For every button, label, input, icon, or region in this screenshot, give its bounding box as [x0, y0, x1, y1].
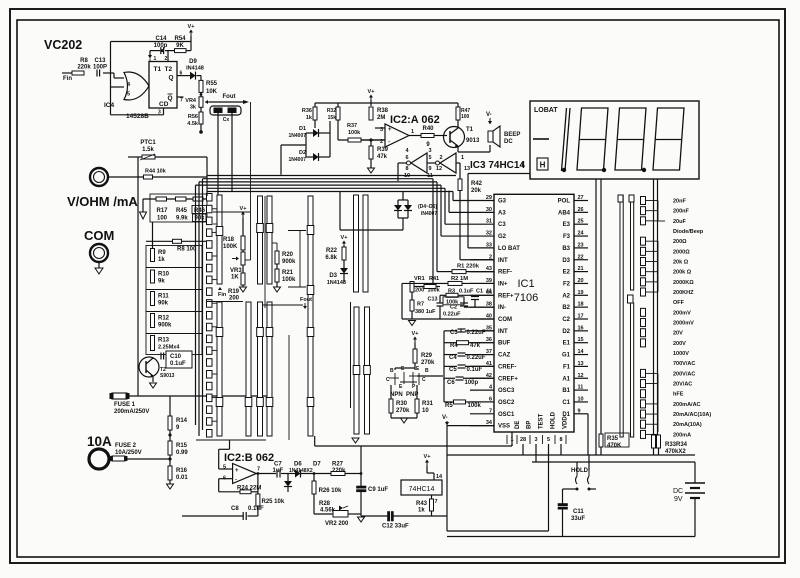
svg-text:D2: D2 — [562, 329, 570, 335]
wire hFE V+ branch — [414, 363, 416, 370]
svg-text:0.1uF: 0.1uF — [170, 361, 186, 367]
svg-text:R45: R45 — [176, 208, 188, 214]
fuse FUSE1 — [112, 393, 127, 399]
svg-text:+: + — [388, 127, 392, 133]
svg-text:R31: R31 — [422, 401, 434, 407]
wire staircase to G2 — [440, 185, 442, 236]
svg-text:R18: R18 — [223, 237, 235, 243]
wire ladder vertical — [152, 222, 154, 249]
wire hFE right link — [417, 375, 443, 377]
svg-text:VDD: VDD — [563, 416, 569, 429]
svg-text:220k: 220k — [77, 65, 91, 71]
resistor R33 R34 470kX2 — [652, 435, 656, 448]
svg-text:74HC14: 74HC14 — [409, 486, 435, 493]
switch bar B1 top — [258, 196, 263, 284]
svg-text:0.22uF: 0.22uF — [443, 312, 461, 318]
ground below R19 — [242, 285, 244, 287]
svg-text:0.22uF: 0.22uF — [467, 355, 486, 361]
svg-text:100k: 100k — [348, 130, 361, 136]
svg-text:Fout: Fout — [223, 94, 236, 100]
switch contact 20V/AC — [641, 380, 646, 388]
speaker BEEP DC — [488, 131, 493, 142]
wire left riser to bus — [206, 157, 208, 196]
svg-text:R22: R22 — [326, 248, 338, 254]
wire inverter chain — [427, 162, 436, 164]
svg-text:FUSE 2: FUSE 2 — [115, 443, 137, 449]
switch contact 2000mV — [641, 319, 646, 327]
svg-text:0.1uF: 0.1uF — [467, 367, 483, 373]
switch bar D2 bottom — [365, 307, 370, 434]
svg-text:1k: 1k — [158, 257, 165, 263]
svg-text:R27: R27 — [332, 462, 344, 468]
svg-text:IN4148: IN4148 — [186, 66, 204, 72]
svg-text:1: 1 — [154, 56, 157, 62]
svg-text:2M: 2M — [377, 115, 385, 121]
wire interbar 265 — [264, 196, 266, 308]
svg-text:2000Ω: 2000Ω — [673, 249, 690, 255]
pot VR2 200 — [333, 511, 348, 518]
svg-text:R28: R28 — [319, 501, 331, 507]
op-amp IC2:A — [385, 124, 409, 147]
svg-text:1N4007: 1N4007 — [288, 157, 306, 163]
wire PTC1 row — [128, 156, 142, 158]
LCD digit 1 — [562, 108, 567, 171]
svg-text:D3: D3 — [562, 258, 570, 264]
svg-text:BP: BP — [527, 421, 533, 429]
svg-text:V-: V- — [442, 415, 448, 421]
svg-text:200k Ω: 200k Ω — [673, 270, 692, 276]
switch contact 20uF — [641, 217, 646, 225]
wire Cx leads down — [217, 112, 219, 196]
wire mid row b — [263, 304, 303, 306]
svg-text:A1: A1 — [562, 376, 570, 382]
svg-text:R38: R38 — [377, 108, 389, 114]
wire opamp inputs — [375, 127, 385, 129]
svg-text:VC202: VC202 — [44, 38, 82, 52]
wire opampB plus route — [229, 440, 231, 449]
wire opamp top rail — [315, 102, 458, 104]
svg-text:33: 33 — [486, 242, 492, 248]
svg-text:B3: B3 — [562, 246, 570, 252]
OR gate IC4 — [124, 72, 149, 100]
svg-text:C14: C14 — [155, 36, 167, 42]
svg-text:C13: C13 — [94, 58, 106, 64]
svg-text:S9013: S9013 — [160, 373, 175, 379]
svg-text:20mA/AC(10A): 20mA/AC(10A) — [673, 412, 711, 418]
wire bar D left lead — [350, 302, 352, 408]
svg-text:100: 100 — [461, 114, 470, 120]
svg-text:Fin: Fin — [63, 76, 72, 82]
svg-text:20V/AC: 20V/AC — [673, 382, 692, 388]
svg-text:T1: T1 — [154, 66, 162, 73]
switch contact 2000KΩ — [641, 278, 646, 286]
op-amp IC2:B — [233, 464, 257, 484]
svg-text:R25 10k: R25 10k — [262, 499, 285, 505]
wire bus h3 — [199, 181, 437, 183]
wire mid vertical 289 — [288, 335, 290, 440]
svg-text:3: 3 — [158, 110, 161, 116]
svg-text:CREF-: CREF- — [498, 364, 516, 370]
svg-text:C1: C1 — [562, 400, 570, 406]
svg-text:47k: 47k — [377, 154, 388, 160]
svg-text:10A: 10A — [87, 434, 112, 449]
svg-text:15k: 15k — [328, 115, 337, 121]
svg-text:1: 1 — [411, 129, 414, 135]
switch bar R2 lower — [631, 303, 634, 437]
svg-text:R5: R5 — [445, 403, 453, 409]
svg-text:IN4007: IN4007 — [421, 211, 437, 217]
resistor R21 100k — [276, 264, 278, 269]
svg-text:14528B: 14528B — [126, 113, 149, 120]
svg-text:OSC2: OSC2 — [498, 400, 515, 406]
svg-text:C6: C6 — [447, 380, 455, 386]
svg-text:V+: V+ — [188, 24, 195, 30]
svg-text:IC2:B 062: IC2:B 062 — [224, 452, 274, 464]
wire bus h6 — [207, 191, 453, 193]
svg-text:2.25Mx4: 2.25Mx4 — [158, 345, 180, 351]
resistor 100k boxed — [443, 297, 464, 305]
svg-text:7: 7 — [180, 98, 183, 104]
wire opampB minus route — [219, 478, 233, 480]
svg-text:9.9k: 9.9k — [176, 216, 188, 222]
svg-text:2: 2 — [439, 155, 442, 161]
switch contact 20mA(10A) — [641, 420, 646, 428]
svg-text:IC4: IC4 — [104, 102, 115, 109]
wire C11 down — [562, 510, 564, 537]
switch contact 2000Ω — [641, 247, 646, 255]
wire staircase to R1 — [436, 182, 438, 272]
resistor R46 90k — [193, 197, 203, 201]
svg-text:29: 29 — [486, 195, 492, 201]
svg-text:100k: 100k — [282, 277, 296, 283]
svg-text:E3: E3 — [563, 222, 571, 228]
wire mid row c — [213, 223, 217, 225]
wire Fin input — [62, 72, 72, 74]
svg-text:900k: 900k — [158, 323, 172, 329]
svg-text:0.99: 0.99 — [176, 450, 188, 456]
switch bar B2 bottom — [267, 302, 272, 436]
svg-text:C7: C7 — [274, 462, 282, 468]
wire opamp out to R40 — [409, 135, 421, 137]
svg-text:V-: V- — [486, 112, 492, 118]
svg-text:200mA/AC: 200mA/AC — [673, 402, 701, 408]
svg-text:20uF: 20uF — [673, 219, 686, 225]
svg-text:C3: C3 — [498, 222, 506, 228]
svg-text:32: 32 — [486, 231, 492, 237]
svg-text:C: C — [422, 377, 426, 383]
wire C9 to C12 link — [361, 515, 366, 517]
svg-text:10K: 10K — [206, 89, 218, 95]
resistor R17 100 — [156, 197, 167, 201]
svg-text:BEEP: BEEP — [504, 132, 520, 138]
svg-text:20V: 20V — [673, 331, 683, 337]
svg-text:Q: Q — [169, 75, 174, 82]
svg-text:7: 7 — [257, 467, 260, 473]
resistor R20 900k — [275, 251, 279, 264]
capacitor C11 33uF — [562, 489, 564, 504]
svg-text:7: 7 — [435, 499, 438, 505]
wire mid box bottom rail — [314, 436, 316, 446]
ladder frame boxes — [146, 246, 202, 268]
switch bar A bottom — [217, 302, 222, 436]
svg-text:IC2:A 062: IC2:A 062 — [390, 114, 440, 126]
ground C9 — [358, 517, 365, 522]
resistor R9 1k — [151, 249, 155, 262]
svg-text:200nF: 200nF — [673, 209, 690, 215]
resistor R45 9.9k — [176, 197, 187, 201]
switch contact column left — [207, 194, 213, 202]
LCD decimal points — [562, 168, 566, 172]
svg-text:30: 30 — [486, 207, 492, 213]
divider frame box — [150, 194, 207, 222]
switch contact 200V/AC — [641, 369, 646, 377]
svg-text:0.1uF: 0.1uF — [459, 289, 474, 295]
switch contact 200mA — [641, 430, 646, 438]
svg-text:9V: 9V — [674, 496, 683, 503]
svg-text:900k: 900k — [282, 259, 296, 265]
ground hFE — [390, 413, 392, 418]
svg-text:D3: D3 — [329, 273, 337, 279]
wire rail2 C14 — [150, 50, 160, 52]
svg-text:DC: DC — [504, 139, 513, 145]
wire diode rail — [305, 133, 307, 157]
switch bar D1 bottom — [354, 307, 359, 434]
switch contact 20nF — [641, 197, 646, 205]
wire contact stubs — [212, 208, 217, 210]
svg-text:V+: V+ — [341, 235, 348, 241]
svg-text:R54: R54 — [174, 36, 186, 42]
svg-text:VR1: VR1 — [414, 276, 425, 282]
wire bus h4 — [196, 184, 442, 186]
svg-text:5: 5 — [547, 437, 550, 443]
svg-text:200Ω: 200Ω — [673, 239, 687, 245]
jack 10A — [89, 449, 109, 469]
wire link x300 — [299, 231, 301, 288]
svg-text:10A/250V: 10A/250V — [115, 450, 142, 456]
svg-text:OSC3: OSC3 — [498, 388, 515, 394]
svg-text:C9 1uF: C9 1uF — [368, 487, 388, 493]
switch bar D1 top — [354, 195, 359, 292]
resistor R8b 100 — [173, 239, 182, 243]
svg-text:Fout: Fout — [300, 297, 312, 303]
resistor R11 90k — [151, 292, 155, 306]
svg-text:V+: V+ — [240, 206, 247, 212]
svg-text:12: 12 — [436, 166, 442, 172]
svg-text:R29: R29 — [421, 353, 433, 359]
svg-text:AB4: AB4 — [558, 210, 571, 216]
svg-text:9: 9 — [428, 166, 431, 172]
svg-text:R19: R19 — [228, 289, 240, 295]
LCD digit 8 #4 — [653, 108, 684, 170]
svg-text:D2: D2 — [299, 150, 306, 156]
switch contact top b — [629, 195, 634, 202]
switch bar R2 upper — [631, 195, 634, 290]
inverter IC3b — [440, 153, 456, 173]
svg-text:IC1: IC1 — [517, 278, 534, 290]
svg-text:R56: R56 — [188, 114, 198, 120]
svg-text:47k: 47k — [470, 343, 481, 349]
wire LO BAT to display — [467, 174, 469, 248]
switch bar A top — [217, 195, 222, 284]
svg-text:200KHZ: 200KHZ — [673, 290, 694, 296]
wire HOLD links — [576, 462, 578, 470]
LCD digit 8 #3 — [615, 108, 646, 170]
svg-text:6: 6 — [405, 155, 408, 161]
svg-text:LO BAT: LO BAT — [498, 246, 520, 252]
svg-text:R30: R30 — [396, 401, 408, 407]
wire left vertical main — [137, 157, 139, 396]
svg-text:VR3: VR3 — [230, 268, 242, 274]
IC4 14528B body — [149, 62, 177, 109]
switch contact 200mA/AC — [641, 400, 646, 408]
wire pin5 drop — [548, 444, 550, 531]
wire R24 row — [219, 491, 240, 493]
svg-text:270k: 270k — [396, 408, 410, 414]
svg-text:B: B — [390, 368, 394, 374]
svg-text:R10: R10 — [158, 272, 170, 278]
wire R20 top — [276, 243, 278, 251]
wire staircase to G3pin — [452, 192, 454, 201]
svg-text:B1: B1 — [562, 388, 570, 394]
svg-text:31: 31 — [486, 219, 492, 225]
svg-text:IN+: IN+ — [498, 281, 508, 287]
svg-text:R8 100: R8 100 — [177, 247, 197, 253]
svg-text:20k Ω: 20k Ω — [673, 260, 689, 266]
svg-text:2000KΩ: 2000KΩ — [673, 280, 694, 286]
svg-text:C10: C10 — [170, 354, 182, 360]
svg-text:D7: D7 — [313, 462, 321, 468]
switch contact 200nF — [641, 207, 646, 215]
svg-text:C12 33uF: C12 33uF — [382, 524, 409, 530]
svg-text:7106: 7106 — [514, 292, 538, 304]
svg-text:COM: COM — [84, 228, 114, 243]
svg-text:POL: POL — [558, 199, 571, 205]
wire output rail 258 — [257, 474, 259, 517]
svg-text:5: 5 — [428, 155, 431, 161]
svg-text:3: 3 — [534, 437, 537, 443]
arrow left divider — [142, 199, 144, 212]
capacitor C9 1uF — [357, 486, 367, 488]
svg-text:1.5k: 1.5k — [142, 147, 154, 153]
svg-text:200V/AC: 200V/AC — [673, 371, 695, 377]
svg-text:200mV: 200mV — [673, 310, 691, 316]
svg-text:E1: E1 — [563, 341, 571, 347]
switch contact 20k Ω — [641, 258, 646, 266]
svg-text:1k: 1k — [418, 508, 425, 514]
svg-text:R7: R7 — [417, 302, 424, 308]
wire R8b row — [146, 240, 173, 242]
resistor R12 900k — [151, 314, 155, 328]
svg-text:C1: C1 — [476, 289, 483, 295]
svg-text:1N4148: 1N4148 — [327, 280, 346, 286]
transistor T2 S9013 — [139, 357, 159, 377]
ground below bars D — [352, 438, 359, 443]
IC U-IC1 7106 body — [494, 194, 574, 432]
svg-text:(D4~D6): (D4~D6) — [418, 204, 437, 210]
wire staircase to A3pin — [448, 191, 450, 213]
resistor R15 0.99 — [169, 430, 171, 441]
jack COM — [90, 244, 108, 262]
svg-text:C2: C2 — [450, 305, 457, 311]
svg-text:LOBAT: LOBAT — [534, 107, 558, 114]
svg-text:V+: V+ — [424, 454, 431, 460]
svg-text:G3: G3 — [498, 199, 507, 205]
wire pin9 D1 drop — [587, 414, 589, 455]
svg-text:90k: 90k — [158, 301, 169, 307]
svg-text:9013: 9013 — [466, 138, 480, 144]
wire IC1 bottom number ticks — [506, 435, 508, 444]
svg-text:R21: R21 — [282, 270, 294, 276]
resistor R10 9k — [151, 270, 155, 283]
svg-text:REF+: REF+ — [498, 293, 514, 299]
wire left drop 202 — [202, 179, 204, 430]
wire bottom bus 1 — [447, 454, 695, 456]
svg-text:CREF+: CREF+ — [498, 376, 518, 382]
resistor R30 270k — [389, 399, 393, 413]
svg-text:V+: V+ — [368, 89, 375, 95]
svg-text:OSC1: OSC1 — [498, 412, 515, 418]
svg-text:R32: R32 — [327, 108, 336, 114]
transistor T1 9013 — [444, 127, 465, 148]
svg-text:R33R34: R33R34 — [665, 442, 688, 448]
svg-text:C13: C13 — [428, 297, 438, 303]
svg-text:INT: INT — [498, 329, 508, 335]
svg-text:3: 3 — [428, 148, 431, 154]
svg-text:700V/AC: 700V/AC — [673, 361, 695, 367]
svg-text:270k: 270k — [421, 360, 435, 366]
svg-text:8: 8 — [559, 437, 562, 443]
svg-text:R11: R11 — [158, 294, 169, 300]
svg-text:G2: G2 — [498, 234, 507, 240]
svg-text:IC3 74HC14: IC3 74HC14 — [470, 160, 525, 171]
svg-text:R14: R14 — [176, 418, 188, 424]
wire T1 emitter to speaker — [457, 146, 459, 152]
resistor R31 10 — [415, 399, 419, 413]
wire bus h5 — [207, 187, 445, 189]
svg-text:R9: R9 — [158, 250, 166, 256]
svg-text:VR2 200: VR2 200 — [325, 521, 349, 527]
svg-text:D9: D9 — [189, 59, 197, 65]
wire C8 row — [182, 515, 243, 517]
svg-text:A2: A2 — [562, 293, 570, 299]
svg-text:10: 10 — [404, 173, 410, 179]
svg-text:C4: C4 — [449, 355, 457, 361]
svg-text:470kX2: 470kX2 — [665, 449, 686, 455]
wire hfe cluster frame — [401, 283, 403, 319]
svg-text:R13: R13 — [158, 338, 170, 344]
svg-text:C8: C8 — [231, 506, 239, 512]
switch contact 20V — [641, 329, 646, 337]
svg-text:14: 14 — [436, 474, 443, 480]
switch contact hFE — [641, 390, 646, 398]
wire range contacts spine top — [657, 201, 659, 222]
svg-text:2: 2 — [165, 56, 168, 62]
svg-text:6.8k: 6.8k — [325, 255, 337, 261]
svg-text:200mA/250V: 200mA/250V — [114, 409, 149, 415]
wire jack to R44 — [108, 176, 144, 178]
ground below R21 — [276, 282, 278, 287]
switch bar R1 — [620, 195, 623, 437]
resistor R13 2.25Mx4 — [151, 336, 155, 351]
svg-text:20nF: 20nF — [673, 199, 686, 205]
wire display drop B — [600, 179, 602, 434]
svg-text:T1: T1 — [466, 127, 474, 133]
svg-text:A3: A3 — [498, 210, 506, 216]
wire feedback loop IC4 — [110, 42, 112, 115]
svg-text:R39: R39 — [377, 147, 389, 153]
svg-text:R8: R8 — [80, 58, 88, 64]
switch contact top a — [618, 195, 623, 202]
